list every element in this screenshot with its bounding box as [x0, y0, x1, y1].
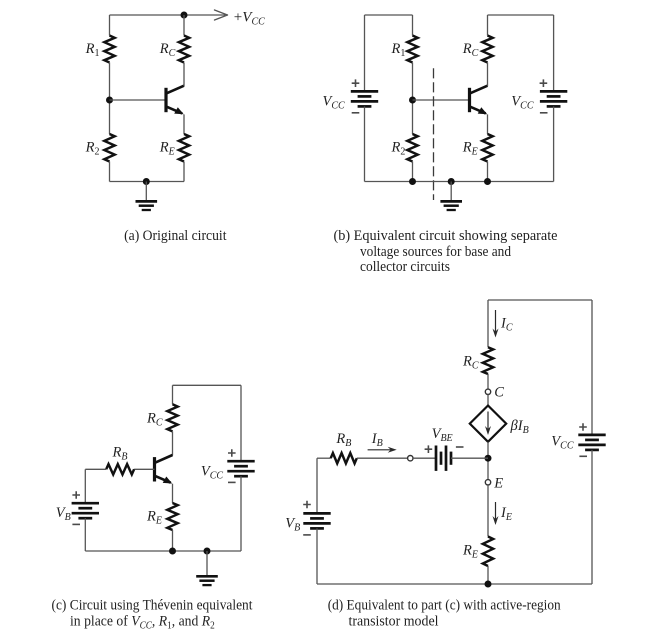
- wire C to diamond (d): [487, 395, 489, 406]
- wire left rail upper (a): [109, 15, 111, 36]
- node top of RC in (a): [181, 12, 188, 19]
- base wire (b): [413, 99, 470, 101]
- resistor RC (a): [179, 36, 189, 63]
- circuit (b) top wire right loop: [488, 14, 554, 16]
- bottom wire (d): [317, 583, 592, 585]
- svg-text:R1: R1: [391, 41, 406, 59]
- base wire (a): [110, 99, 167, 101]
- svg-text:transistor model: transistor model: [349, 614, 439, 630]
- wire collector rail (a): [183, 15, 185, 36]
- right rail upper (c): [240, 385, 242, 461]
- svg-text:VCC: VCC: [551, 433, 574, 451]
- bottom wire (a): [110, 181, 185, 183]
- circuit (d) top wire: [488, 299, 592, 301]
- ground (b): [440, 182, 462, 211]
- battery VCC left (b): [351, 90, 378, 93]
- plus right battery (b): [540, 79, 548, 87]
- resistor RC (b): [482, 36, 492, 63]
- wire RE down (c): [172, 530, 174, 551]
- right rail lower (c): [240, 476, 242, 551]
- bottom wire (b): [365, 181, 554, 183]
- node R2 bottom (b): [409, 178, 416, 185]
- svg-text:(c) Circuit using Thévenin equ: (c) Circuit using Thévenin equivalent: [52, 598, 254, 614]
- wire RB to node B (d): [357, 457, 408, 459]
- circuit (a) top wire: [110, 14, 226, 16]
- node ground (b): [448, 178, 455, 185]
- wire B to VBE (d): [413, 457, 436, 459]
- wire right battery rail lower (b): [553, 106, 555, 181]
- svg-text:R1: R1: [85, 41, 100, 59]
- svg-text:VCC: VCC: [511, 93, 534, 111]
- svg-text:RB: RB: [335, 431, 351, 449]
- wire VBE to node (d): [451, 457, 488, 459]
- wire right battery rail upper (b): [553, 15, 555, 91]
- plus VB (d): [303, 501, 311, 509]
- wire emitter to RE (b): [487, 114, 489, 134]
- svg-text:IC: IC: [500, 315, 513, 333]
- current arrow IC (d): [493, 310, 499, 338]
- wire RC to collector (b): [487, 63, 489, 87]
- resistor R1 (a): [104, 36, 114, 63]
- ground (a): [136, 182, 158, 211]
- terminal C (d): [485, 389, 490, 394]
- resistor RC (c): [167, 404, 177, 431]
- svg-text:RB: RB: [112, 444, 128, 462]
- svg-text:VCC: VCC: [323, 93, 346, 111]
- wire RC rail top (c): [172, 385, 174, 404]
- node base divider (b): [409, 97, 416, 104]
- wire left rail mid (a): [109, 63, 111, 135]
- resistor RB (c): [106, 464, 134, 474]
- svg-text:(b) Equivalent circuit showing: (b) Equivalent circuit showing separate: [334, 228, 558, 244]
- minus VCC (d): [579, 455, 587, 457]
- plus VCC (d): [579, 423, 587, 431]
- dashed separator line (b): [433, 68, 435, 200]
- wire RC to collector (c): [172, 431, 174, 455]
- svg-text:collector circuits: collector circuits: [360, 259, 450, 275]
- svg-text:RC: RC: [159, 41, 176, 59]
- right rail lower (d): [591, 450, 593, 584]
- left rail (c): [84, 469, 86, 503]
- current arrow IB (d): [368, 447, 397, 453]
- wire VB to bottom (c): [84, 518, 86, 551]
- svg-text:VB: VB: [56, 505, 71, 523]
- plus VBE (d): [425, 445, 433, 453]
- svg-text:RC: RC: [462, 354, 479, 372]
- open arrow to +VCC: [215, 10, 228, 20]
- svg-text:VBE: VBE: [432, 426, 453, 444]
- circuit (c) top wire: [173, 384, 242, 386]
- wire E down (d): [487, 485, 489, 537]
- svg-text:RC: RC: [146, 411, 163, 429]
- wire base to transistor (c): [134, 468, 154, 470]
- left rail lower (d): [316, 528, 318, 584]
- svg-text:βIB: βIB: [510, 418, 529, 436]
- resistor RE (a): [179, 134, 189, 162]
- wire RE down (b): [487, 162, 489, 182]
- svg-text:(d) Equivalent to part (c) wit: (d) Equivalent to part (c) with active-r…: [328, 598, 562, 614]
- wire RE down (a): [183, 162, 185, 182]
- battery VB (d): [303, 512, 330, 515]
- arrow inside diamond (d): [485, 412, 491, 436]
- node bottom (d): [485, 581, 492, 588]
- battery VCC (c): [227, 460, 254, 463]
- battery VBE (d): [435, 446, 438, 471]
- wire RB to left rail (c): [85, 468, 106, 470]
- wire RC to collector (a): [183, 63, 185, 87]
- resistor R1 (b): [407, 36, 417, 63]
- svg-text:VB: VB: [285, 515, 300, 533]
- wire left battery rail upper (b): [364, 15, 366, 91]
- svg-text:in place of VCC, R1, and R2: in place of VCC, R1, and R2: [70, 614, 215, 632]
- wire RC rail top (b): [487, 15, 489, 36]
- svg-text:RE: RE: [159, 140, 175, 158]
- resistor R2 (a): [104, 134, 114, 162]
- wire RC to node C (d): [487, 374, 489, 389]
- transistor Q (a): [166, 86, 184, 115]
- current arrow IE (d): [493, 502, 499, 525]
- resistor RC (d): [483, 347, 493, 374]
- right rail upper (d): [591, 300, 593, 435]
- minus left battery (b): [352, 112, 360, 114]
- wire top to RC (d): [487, 300, 489, 347]
- wire left rail to RB (d): [317, 457, 331, 459]
- svg-text:IE: IE: [500, 505, 512, 523]
- plus VB (c): [72, 491, 80, 499]
- minus VBE (d): [456, 446, 464, 448]
- resistor RE (d): [483, 537, 493, 567]
- svg-text:RC: RC: [462, 41, 479, 59]
- minus VB (c): [72, 523, 80, 525]
- svg-text:RE: RE: [462, 543, 478, 561]
- wire emitter to RE (a): [183, 114, 185, 134]
- svg-text:C: C: [494, 385, 504, 401]
- circuit (b) top wire left loop: [365, 14, 413, 16]
- svg-text:R2: R2: [85, 140, 100, 158]
- node RE bottom (c): [169, 548, 176, 555]
- battery VCC right (b): [540, 90, 567, 93]
- plus VCC (c): [228, 449, 236, 457]
- resistor RB (d): [331, 453, 357, 463]
- wire divider rail lower (b): [412, 162, 414, 182]
- svg-text:R2: R2: [391, 140, 406, 158]
- minus VCC (c): [228, 481, 236, 483]
- wire divider rail mid (b): [412, 63, 414, 135]
- svg-text:RE: RE: [146, 509, 162, 527]
- terminal E (d): [485, 480, 490, 485]
- svg-text:(a) Original circuit: (a) Original circuit: [124, 228, 227, 244]
- bottom wire (c): [85, 550, 241, 552]
- transistor Q (b): [470, 86, 488, 115]
- node ground (c): [204, 548, 211, 555]
- svg-text:E: E: [493, 475, 503, 491]
- resistor R2 (b): [407, 134, 417, 162]
- resistor RE (c): [167, 503, 177, 530]
- minus right battery (b): [540, 112, 548, 114]
- dependent source diamond (d): [470, 406, 506, 442]
- battery VB (c): [72, 502, 99, 505]
- minus VB (d): [303, 534, 311, 536]
- svg-text:VCC: VCC: [201, 463, 224, 481]
- left rail upper (d): [316, 458, 318, 513]
- svg-text:voltage sources for base and: voltage sources for base and: [360, 244, 512, 260]
- svg-text:RE: RE: [462, 140, 478, 158]
- wire R1 rail top (b): [412, 15, 414, 36]
- node base divider (a): [106, 97, 113, 104]
- svg-text:IB: IB: [371, 431, 383, 449]
- resistor RE (b): [482, 134, 492, 162]
- node RE bottom (b): [484, 178, 491, 185]
- wire emitter to RE (c): [172, 484, 174, 503]
- node ground (a): [143, 178, 150, 185]
- wire left rail lower (a): [109, 162, 111, 182]
- transistor Q (c): [155, 455, 173, 484]
- terminal B circle (d): [408, 456, 413, 461]
- wire diamond to E (d): [487, 442, 489, 480]
- svg-text:+VCC: +VCC: [234, 10, 265, 28]
- wire RE to bottom (d): [487, 566, 489, 584]
- node E junction dot (d): [485, 455, 492, 462]
- wire left battery rail lower (b): [364, 106, 366, 181]
- plus left battery (b): [352, 79, 360, 87]
- ground (c): [196, 551, 218, 585]
- battery VCC (d): [578, 434, 605, 437]
